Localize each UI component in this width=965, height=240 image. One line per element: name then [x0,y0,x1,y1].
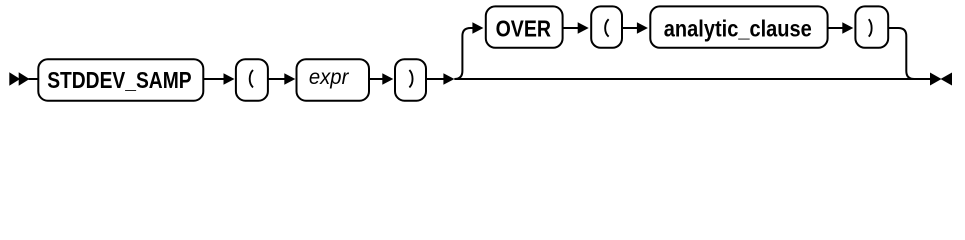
wire branch down to main line [888,28,914,79]
wire main bypass line [454,78,930,80]
wire branch up to OVER row [454,22,483,79]
wire STDDEV_SAMP to ( [203,73,234,85]
start terminal double arrow [9,72,38,85]
svg-text:analytic_clause: analytic_clause [664,16,812,42]
wire ( to expr [268,73,295,85]
wire ( to analytic_clause [622,22,648,34]
box ) [395,59,426,100]
wire ) to branch point [426,73,454,85]
box OVER [486,6,563,47]
wire expr to ) [369,73,393,85]
box analytic_clause [650,6,827,47]
box ) top [855,6,888,47]
wire analytic_clause to ) [828,22,854,34]
end terminal bowtie [930,73,952,86]
box ( top [591,6,622,47]
box STDDEV_SAMP [38,59,203,100]
svg-text:expr: expr [309,66,349,89]
box expr [297,59,370,100]
box ( [236,59,268,100]
svg-text:STDDEV_SAMP: STDDEV_SAMP [47,67,191,93]
svg-text:OVER: OVER [496,16,552,42]
wire OVER to ( [563,22,589,34]
